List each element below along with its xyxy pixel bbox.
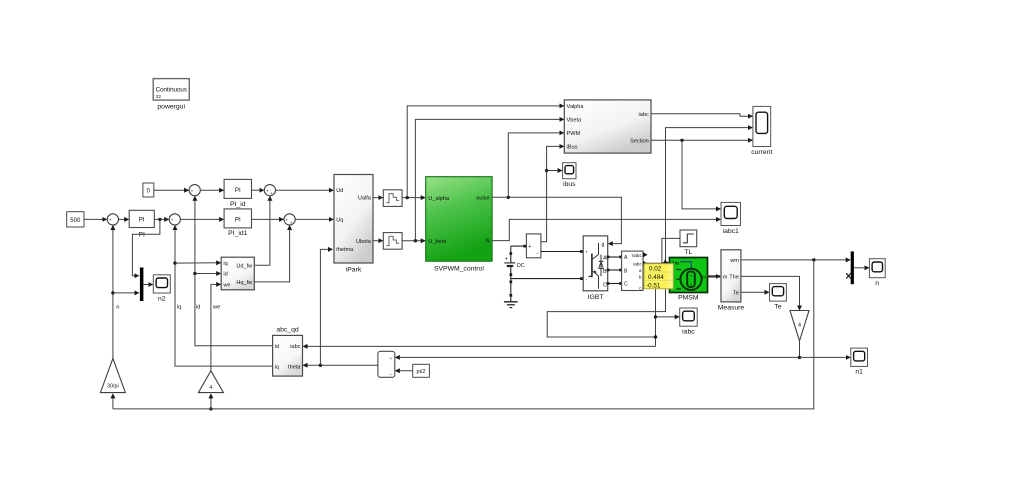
svg-text:The: The	[729, 274, 739, 280]
wire 500 to sum S3	[84, 218, 107, 220]
connection squares phase C	[607, 282, 622, 285]
wire S3 to PI	[119, 218, 129, 220]
wire gain4 output to n1 and theta sum	[396, 341, 800, 358]
display n1	[851, 348, 868, 376]
svg-text:iq: iq	[223, 261, 227, 267]
wire theta sum output to abc_qd and iPark	[303, 364, 378, 366]
svg-text:SVPWM_control: SVPWM_control	[434, 265, 484, 272]
wire TL to PMSM Tm	[662, 238, 680, 262]
wire pulse branch up to PWM	[508, 133, 563, 197]
svg-text:n: n	[116, 305, 119, 311]
svg-text:+: +	[585, 250, 588, 255]
wire id feedback	[195, 197, 273, 346]
wire branch to ibus display	[547, 170, 562, 172]
wire n feedback vertical to sum S3	[112, 226, 114, 359]
junction dot pulse-PWM	[507, 196, 510, 199]
wire we from gain4 to fw block	[211, 284, 221, 370]
theta sum block	[378, 351, 395, 377]
wire ibus measurement up to iBus port	[541, 146, 564, 241]
scope Te	[770, 284, 787, 311]
svg-text:Section: Section	[630, 138, 649, 144]
svg-text:iabc: iabc	[633, 262, 642, 267]
wire iabc down through display to loop	[547, 263, 665, 337]
constant pi2	[413, 364, 430, 377]
wire DC plus to current measurement	[511, 245, 527, 247]
wire id branch to fw	[195, 273, 221, 275]
junction dot feedback gain4	[209, 407, 212, 410]
wire Ubeta to rate transition 2	[373, 240, 383, 242]
svg-text:g: g	[602, 242, 605, 248]
svg-text:_: _	[194, 191, 198, 196]
svg-text:id: id	[275, 344, 279, 350]
IGBT inverter block	[583, 236, 608, 301]
wire IGBT C to measurement C	[608, 283, 622, 285]
svg-text:m: m	[702, 276, 706, 281]
powergui block	[153, 79, 189, 111]
wire wm feedback down and left	[113, 260, 814, 409]
connection squares phase B	[607, 269, 622, 272]
svg-text:iabc: iabc	[290, 344, 300, 350]
rate transition 1	[383, 190, 402, 207]
scope iabc1	[721, 202, 741, 235]
svg-text:Ud: Ud	[336, 188, 343, 194]
svg-text:TL: TL	[684, 249, 692, 256]
svg-text:+: +	[171, 218, 174, 223]
svg-text:PWM: PWM	[567, 131, 581, 137]
svg-text:0.02: 0.02	[649, 266, 662, 273]
wire Ubeta up to Vbeta	[415, 119, 563, 240]
svg-text:C: C	[624, 282, 628, 288]
svg-text:_: _	[174, 220, 178, 225]
svg-text:id: id	[196, 305, 201, 311]
junction dot wm feedback	[812, 258, 815, 261]
wire monitor iabc to current scope	[651, 114, 752, 116]
junction dot iabc loop	[654, 335, 657, 338]
wire theta branch up to iPark thetma	[320, 249, 332, 365]
current measurement block	[526, 234, 541, 258]
connection square at measurement input	[523, 245, 526, 248]
unconnected port x	[846, 273, 851, 278]
wire mux to scope n2	[143, 284, 152, 286]
svg-text:ibus: ibus	[563, 181, 576, 188]
svg-text:n2: n2	[158, 296, 166, 303]
svg-text:+: +	[109, 218, 112, 223]
wire feedback into gain 4	[210, 394, 212, 409]
wire DC minus to IGBT minus	[511, 278, 583, 280]
svg-text:abc_qd: abc_qd	[276, 326, 299, 333]
svg-text:Te: Te	[733, 290, 739, 296]
wire branch to display n1	[800, 356, 851, 358]
svg-text:we: we	[222, 282, 230, 288]
svg-text:Continuous: Continuous	[156, 87, 187, 94]
wire pulse output	[492, 197, 621, 243]
svg-text:PI_id: PI_id	[230, 201, 246, 208]
display n	[869, 259, 885, 287]
svg-text:iq: iq	[177, 305, 182, 311]
gain 4 down (pole pairs)	[790, 311, 809, 341]
connection square at IGBT minus	[580, 277, 583, 280]
svg-text:id: id	[223, 272, 227, 278]
wire mux to display n	[854, 267, 869, 269]
junction dot id	[193, 272, 196, 275]
sum S5	[284, 214, 295, 226]
wire iabc main vertical	[655, 270, 657, 346]
constant 500	[67, 212, 84, 227]
wire RT2 to U_beta	[402, 240, 425, 242]
svg-text:IGBT: IGBT	[588, 294, 604, 301]
svg-text:pi/2: pi/2	[416, 369, 425, 375]
wire IGBT A to measurement A	[608, 256, 622, 258]
svg-text:+: +	[290, 220, 293, 225]
svg-text:+: +	[270, 191, 273, 196]
wire S1 to PI_id	[200, 189, 223, 191]
mux n	[851, 251, 854, 284]
wire Te to scope Te	[741, 291, 769, 293]
svg-text:U_alpha: U_alpha	[428, 196, 450, 202]
wire current measurement to IGBT plus	[541, 251, 583, 253]
junction dot ibus	[545, 169, 548, 172]
svg-text:+: +	[389, 357, 392, 362]
wire 0 to sum S1	[154, 189, 189, 191]
svg-text:-0.51: -0.51	[646, 282, 661, 289]
svg-text:B: B	[603, 269, 607, 275]
connection squares phase A	[607, 256, 622, 259]
scope current	[751, 106, 772, 156]
wire PI_id to sum S2	[252, 189, 264, 191]
constant 0	[143, 183, 154, 197]
svg-text:PI: PI	[235, 216, 241, 223]
svg-text:Measure: Measure	[718, 304, 745, 311]
svg-text:22: 22	[156, 94, 162, 99]
svg-text:+: +	[266, 188, 269, 193]
svg-text:we: we	[212, 305, 220, 311]
svg-text:wm: wm	[729, 258, 739, 264]
wire IGBT B to measurement B	[608, 269, 622, 271]
fw weakening block	[221, 257, 254, 290]
junction dot after speed PI	[158, 218, 161, 221]
wire iq feedback	[175, 226, 273, 366]
svg-text:Te: Te	[774, 304, 781, 311]
wire Hq_fw to sum S5	[254, 226, 289, 282]
wire iq branch to fw	[175, 262, 220, 264]
svg-text:4: 4	[209, 385, 212, 391]
monitor subsystem block	[564, 100, 651, 153]
connection square at IGBT plus	[580, 250, 583, 253]
junction dot Ubeta	[414, 239, 417, 242]
svg-text:Ud_fw: Ud_fw	[236, 263, 253, 269]
svg-text:Ubeta: Ubeta	[356, 239, 372, 245]
wire PI_id1 to sum S5	[252, 218, 284, 220]
svg-text:+: +	[528, 244, 531, 250]
svg-text:PMSM: PMSM	[678, 295, 699, 302]
sum S4	[169, 214, 180, 226]
svg-text:iPark: iPark	[346, 266, 362, 273]
gain 4 (speed to we)	[198, 371, 223, 393]
sum S3	[107, 214, 118, 226]
svg-text:30/pi: 30/pi	[107, 384, 119, 390]
SVPWM_control block	[426, 177, 492, 273]
svg-text:500: 500	[70, 218, 81, 224]
wire PMSM m bus to Measure	[708, 275, 721, 277]
wire N output to iabc1	[492, 219, 720, 240]
wire branch to iabc scope	[656, 316, 679, 318]
wire S2 to iPark Ud	[276, 189, 334, 191]
svg-text:iabc: iabc	[639, 112, 649, 118]
svg-text:m: m	[723, 274, 728, 280]
wire Ualpha up to Valpha	[407, 106, 563, 198]
display ibus	[563, 163, 577, 188]
wire n branch to mux input2	[113, 292, 139, 294]
svg-text:theta: theta	[288, 364, 301, 370]
svg-text:Hq_fw: Hq_fw	[236, 280, 253, 286]
step TL	[680, 230, 697, 256]
svg-text:powergui: powergui	[157, 104, 185, 111]
sum S2	[264, 185, 275, 197]
wire Ualfa to rate transition 1	[373, 197, 383, 199]
wire Section branch to iabc1	[682, 140, 720, 209]
svg-text:n: n	[875, 280, 879, 287]
wire Ud_fw to sum S2	[254, 197, 270, 266]
svg-text:n1: n1	[855, 369, 863, 376]
junction dot Section	[680, 139, 683, 142]
svg-text:+: +	[191, 188, 194, 193]
PMSM block	[670, 258, 708, 302]
wire S5 to iPark Uq	[295, 218, 333, 220]
svg-text:iq: iq	[275, 364, 279, 370]
wire branch PI output down to mux n2	[132, 219, 160, 275]
wire The to gain 4 down	[741, 276, 800, 309]
svg-text:Vabc: Vabc	[632, 253, 643, 258]
wire wm to mux n	[741, 259, 850, 261]
svg-text:+: +	[505, 256, 508, 262]
svg-text:0.484: 0.484	[648, 274, 664, 281]
svg-text:Ualfa: Ualfa	[358, 196, 372, 202]
junction dot theta wire	[798, 356, 801, 359]
PI speed controller	[129, 210, 154, 238]
svg-text:+: +	[286, 218, 289, 223]
PI_id block	[224, 179, 251, 207]
wire feedback into 30/pi	[112, 394, 114, 409]
svg-text:iabc: iabc	[682, 329, 695, 336]
svg-text:iBus: iBus	[567, 145, 578, 151]
rate transition 2	[383, 233, 402, 250]
junction dot Ualpha	[406, 196, 409, 199]
wire measured iabc up to current scope	[645, 128, 752, 264]
wire RT1 to U_alpha	[402, 197, 425, 199]
DC source	[504, 246, 524, 297]
gain 30/pi	[100, 358, 125, 392]
svg-text:pulse: pulse	[476, 196, 489, 202]
svg-text:iabc1: iabc1	[723, 228, 739, 235]
svg-text:thetma: thetma	[336, 247, 354, 253]
svg-text:_: _	[389, 371, 393, 376]
svg-text:U_beta: U_beta	[428, 239, 447, 245]
svg-text:Vbeta: Vbeta	[567, 118, 583, 124]
Measure block	[718, 250, 745, 312]
svg-text:PI: PI	[139, 216, 145, 223]
svg-text:C: C	[603, 283, 607, 289]
iPark block	[334, 175, 373, 274]
junction dot iq	[173, 261, 176, 264]
junction dot iabc scope branch	[654, 315, 657, 318]
svg-text:Valpha: Valpha	[567, 104, 585, 110]
svg-text:DC: DC	[517, 263, 525, 269]
scope n2	[153, 275, 170, 303]
sum S1	[189, 185, 200, 197]
junction dot theta	[319, 364, 322, 367]
svg-text:_: _	[112, 220, 116, 225]
ground	[504, 295, 518, 307]
wire pi2 to theta sum	[396, 370, 413, 372]
wire Section to current scope	[651, 139, 752, 141]
svg-text:4: 4	[798, 322, 801, 328]
display iabc values	[644, 264, 673, 290]
svg-text:A: A	[603, 255, 607, 261]
svg-text:PI: PI	[138, 231, 145, 238]
junction dot n to mux	[111, 291, 114, 294]
svg-text:current: current	[751, 149, 772, 156]
abc_qd block	[273, 326, 303, 376]
three-phase VI measurement block	[622, 251, 648, 290]
wire iabc into abc_qd	[303, 345, 655, 347]
scope iabc	[680, 308, 698, 336]
svg-text:PI_id1: PI_id1	[228, 230, 247, 237]
svg-text:N: N	[486, 239, 490, 245]
wire S4 to PI_id1	[180, 218, 223, 220]
wire PI to sum S4	[154, 218, 168, 220]
svg-text:PI: PI	[235, 187, 241, 194]
mux n2mux	[140, 268, 144, 302]
PI_id1 block	[224, 209, 251, 237]
svg-text:Uq: Uq	[336, 217, 343, 223]
